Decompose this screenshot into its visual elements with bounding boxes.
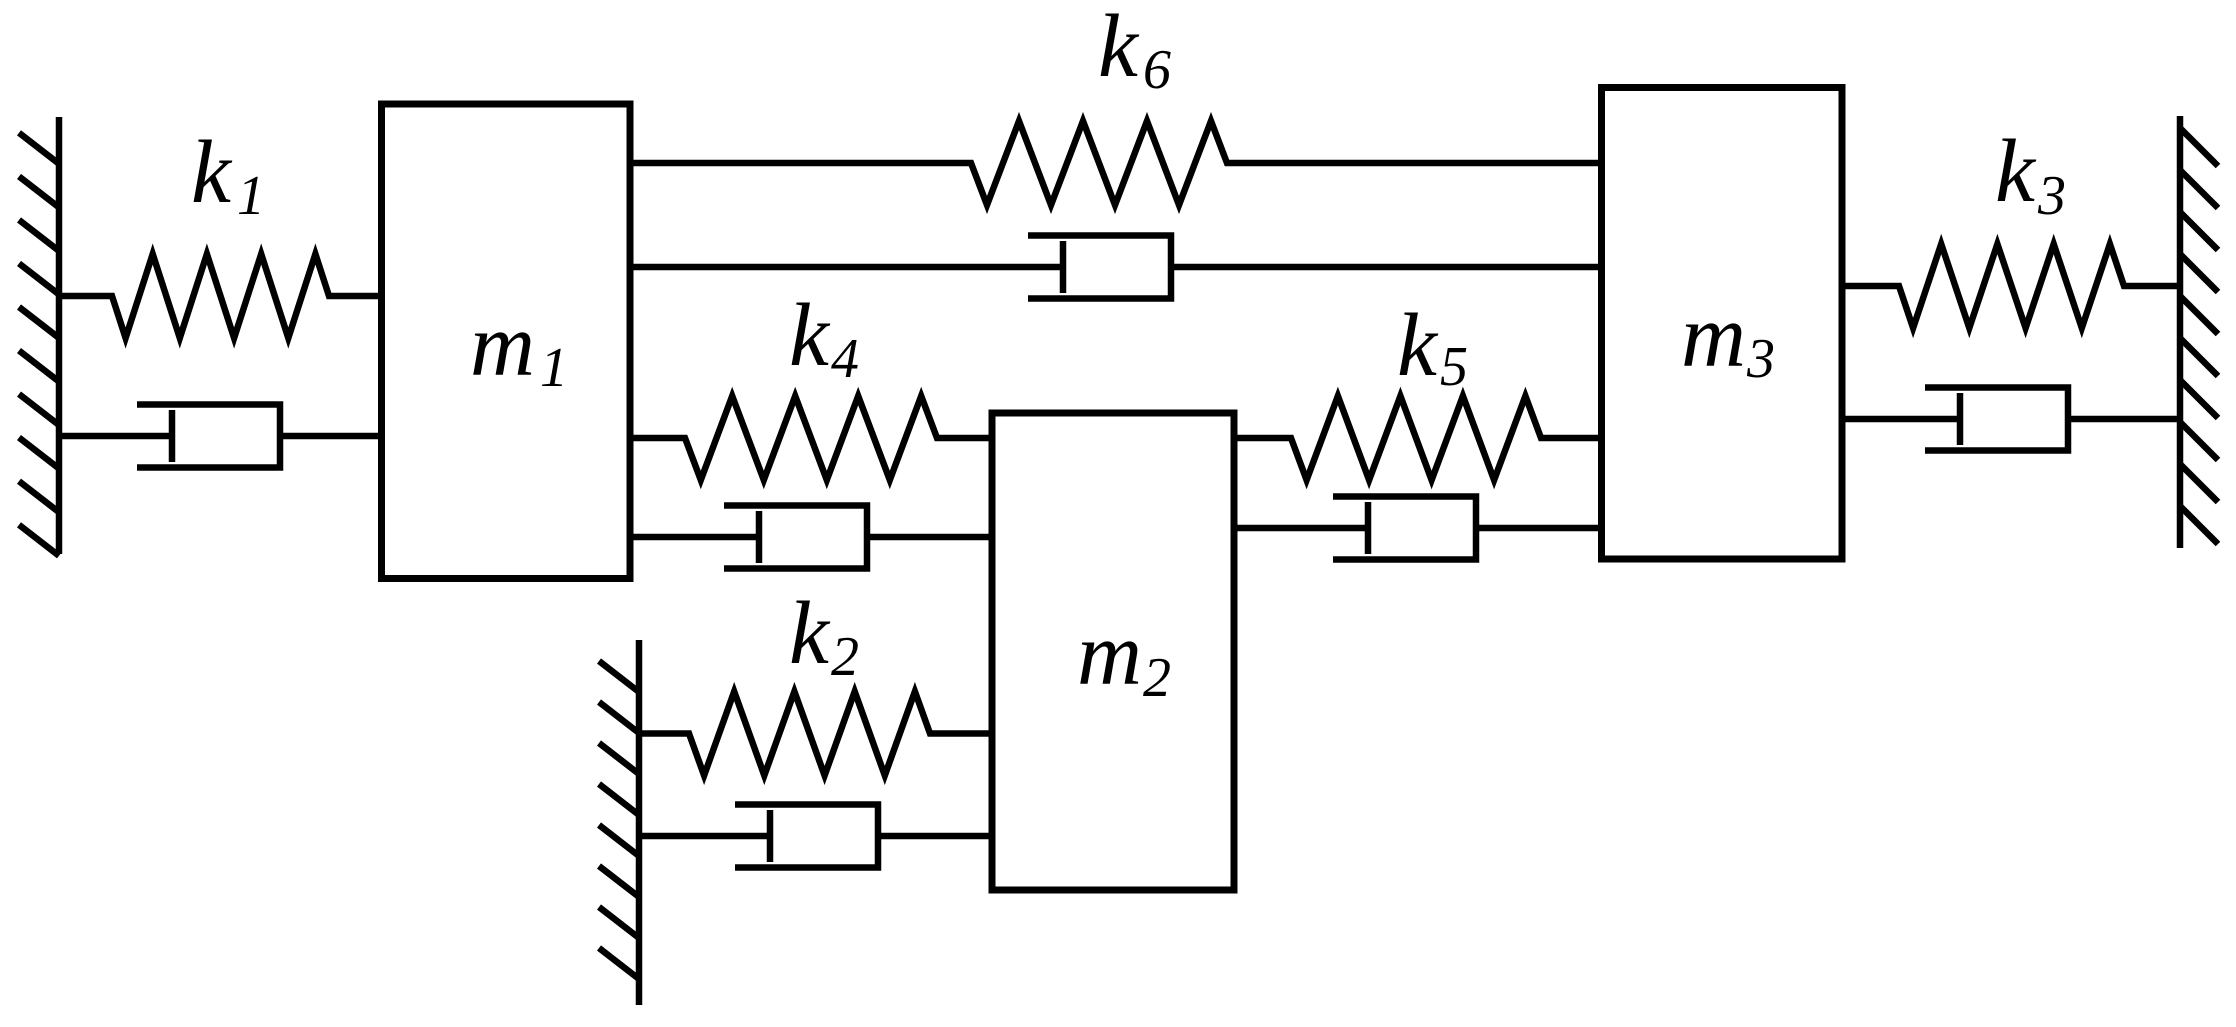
svg-text:k: k: [1995, 122, 2037, 221]
svg-text:1: 1: [540, 337, 568, 399]
label k6: [1098, 0, 1171, 101]
svg-text:2: 2: [831, 626, 859, 688]
label k1: [191, 123, 265, 227]
damper c5 (m2 to m3): [1234, 497, 1602, 560]
spring k4 (m1 to m2): [630, 396, 992, 480]
svg-text:m: m: [1681, 287, 1746, 386]
damper c6 (m1 to m3): [630, 236, 1602, 299]
svg-text:1: 1: [237, 165, 265, 227]
svg-text:k: k: [1397, 296, 1439, 395]
wall bottom (fixed support for k2 and damper): [599, 640, 639, 1005]
spring k6 (m1 to m3): [630, 121, 1602, 205]
label k3: [1995, 122, 2066, 227]
label m2: [1077, 605, 1171, 709]
label k5: [1397, 296, 1468, 398]
svg-text:2: 2: [1143, 647, 1171, 709]
spring k1 (wall to m1): [59, 254, 382, 338]
svg-text:k: k: [1098, 0, 1140, 96]
damper c3 (m3 to wall): [1842, 388, 2180, 451]
label m1: [470, 296, 568, 399]
svg-text:5: 5: [1440, 336, 1468, 398]
svg-text:k: k: [789, 584, 831, 683]
label k4: [789, 286, 859, 390]
label k2: [789, 584, 859, 688]
spring k3 (m3 to wall): [1842, 244, 2180, 328]
wall left (fixed support for k1 and damper): [19, 117, 59, 556]
svg-text:m: m: [470, 296, 535, 395]
spring k5 (m2 to m3): [1234, 396, 1602, 480]
damper c1 (wall to m1): [59, 405, 382, 468]
svg-text:3: 3: [1746, 328, 1775, 390]
svg-text:6: 6: [1143, 39, 1171, 101]
damper c2 (wall to m2): [639, 805, 992, 868]
mass m2: [992, 413, 1234, 890]
mass m3: [1602, 88, 1843, 560]
svg-text:k: k: [191, 123, 233, 222]
spring k2 (wall to m2): [639, 692, 992, 776]
label m3: [1681, 287, 1775, 390]
wall right (fixed support for k3 and damper): [2180, 116, 2218, 548]
damper c4 (m1 to m2): [630, 506, 992, 569]
svg-text:3: 3: [2037, 165, 2066, 227]
svg-text:k: k: [789, 286, 831, 385]
mass m1: [382, 104, 631, 579]
svg-text:4: 4: [831, 328, 859, 390]
svg-text:m: m: [1077, 605, 1142, 704]
